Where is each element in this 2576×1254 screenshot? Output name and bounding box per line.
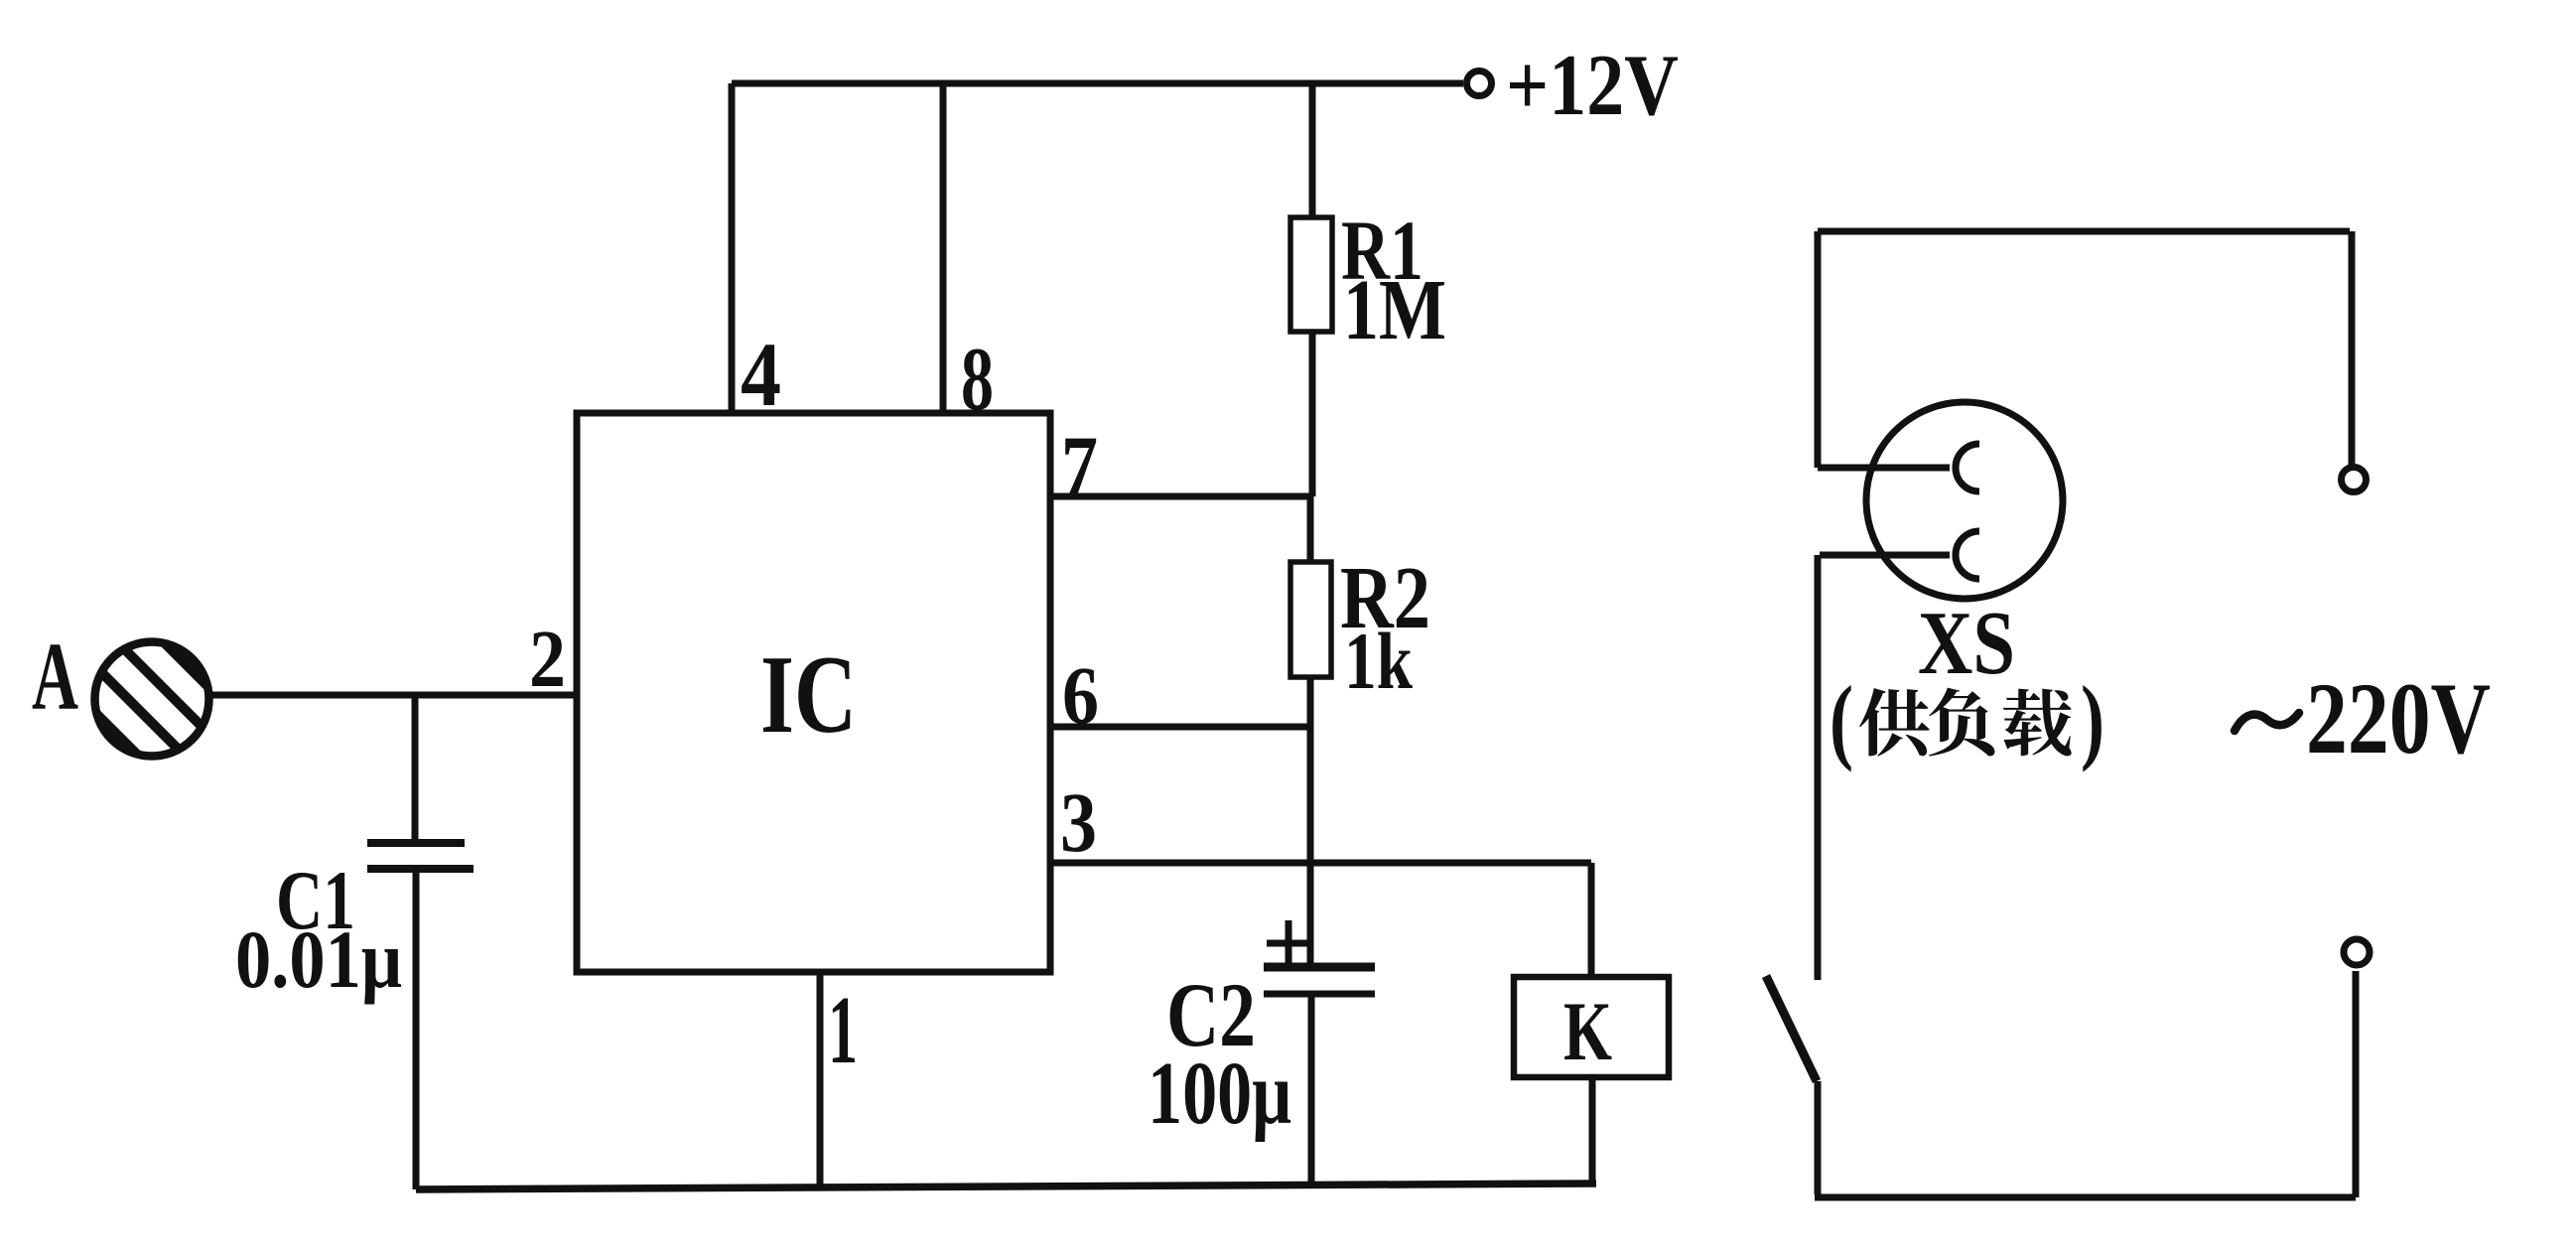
capacitor C1 top plate xyxy=(367,839,465,847)
wire top rail down to socket upper pin xyxy=(1815,231,1822,468)
label 负 (load char 1) xyxy=(1929,688,1994,757)
wire C1 to bottom rail xyxy=(413,869,420,1189)
wire lower 220V terminal to bottom rail xyxy=(2353,971,2360,1197)
svg-text:100μ: 100μ xyxy=(1148,1045,1291,1143)
wire relay K to bottom rail xyxy=(1589,1077,1596,1184)
wire pin 8 to +12V rail xyxy=(940,83,947,413)
svg-text:7: 7 xyxy=(1061,418,1098,513)
svg-text:6: 6 xyxy=(1062,649,1099,741)
svg-text:IC: IC xyxy=(760,633,857,757)
wire pin 7 node to R2 xyxy=(1307,496,1314,565)
svg-text:0.01μ: 0.01μ xyxy=(235,913,402,1005)
wire 220V top rail xyxy=(1818,228,2350,235)
label 载 (load char 2) xyxy=(2003,689,2072,757)
capacitor C2 polarity mark xyxy=(1267,920,1308,963)
socket XS upper pin contact arc xyxy=(1956,444,1979,491)
svg-text:K: K xyxy=(1563,985,1612,1078)
wire switch to 220V bottom rail xyxy=(1815,1081,1822,1194)
label 供 (supply) xyxy=(1859,688,1930,757)
svg-text:1k: 1k xyxy=(1344,616,1413,706)
terminal +12V xyxy=(1467,71,1492,96)
wire pin 3 to relay K xyxy=(1050,860,1591,867)
wire pin 3 node down to relay K coil xyxy=(1588,863,1595,977)
capacitor C1 bottom plate xyxy=(367,865,474,873)
wire socket XS lower pin xyxy=(1820,552,1950,559)
wire socket lower pin down to switch xyxy=(1815,555,1822,980)
wire node A to pin 2 xyxy=(210,692,577,699)
switch contact blade (relay contact of K) xyxy=(1766,976,1817,1081)
svg-text:3: 3 xyxy=(1060,774,1097,870)
svg-text:+12V: +12V xyxy=(1506,38,1679,134)
svg-text:XS: XS xyxy=(1918,593,2015,693)
terminal 220V lower xyxy=(2344,939,2370,965)
wire pin 7 xyxy=(1050,493,1312,500)
svg-text:220V: 220V xyxy=(2306,662,2491,775)
wire +12V rail to R1 xyxy=(1309,83,1316,220)
svg-text:4: 4 xyxy=(741,324,781,425)
socket XS lower pin contact arc xyxy=(1956,531,1979,579)
svg-text:): ) xyxy=(2081,666,2104,772)
wire bottom rail (timer circuit) xyxy=(416,1184,1596,1189)
IC timer body xyxy=(577,413,1050,972)
wire upper 220V terminal to top rail xyxy=(2349,231,2356,467)
svg-text:A: A xyxy=(32,624,78,730)
wire pin 6 xyxy=(1050,724,1310,731)
wire node A branch to C1 xyxy=(412,695,419,843)
terminal 220V upper xyxy=(2342,468,2367,492)
label ~ (AC) of 220V xyxy=(2235,713,2299,731)
wire socket XS upper pin xyxy=(1818,465,1950,472)
wire +12V rail (top) xyxy=(732,80,1463,87)
wire pin 1 to bottom rail xyxy=(817,972,824,1187)
svg-text:8: 8 xyxy=(961,329,994,429)
wire R2 to C2 through pin 6 / pin 3 nodes xyxy=(1307,677,1314,966)
node A touch plate (hatched circle) xyxy=(43,590,261,808)
wire R1 to pin 7 node xyxy=(1309,332,1316,496)
svg-text:1: 1 xyxy=(828,977,858,1084)
svg-text:2: 2 xyxy=(529,613,566,704)
svg-text:(: ( xyxy=(1830,666,1853,772)
relay coil K xyxy=(1514,977,1669,1077)
wire 220V bottom rail xyxy=(1815,1194,2356,1201)
wire C2 to bottom rail xyxy=(1308,996,1315,1186)
capacitor C2 bottom plate xyxy=(1264,991,1375,998)
wire pin 4 to +12V rail xyxy=(729,83,736,413)
resistor R1 xyxy=(1290,217,1332,332)
resistor R2 xyxy=(1290,562,1331,677)
capacitor C2 top plate xyxy=(1264,963,1375,972)
socket XS body circle xyxy=(1866,402,2063,599)
svg-text:1M: 1M xyxy=(1343,261,1446,357)
